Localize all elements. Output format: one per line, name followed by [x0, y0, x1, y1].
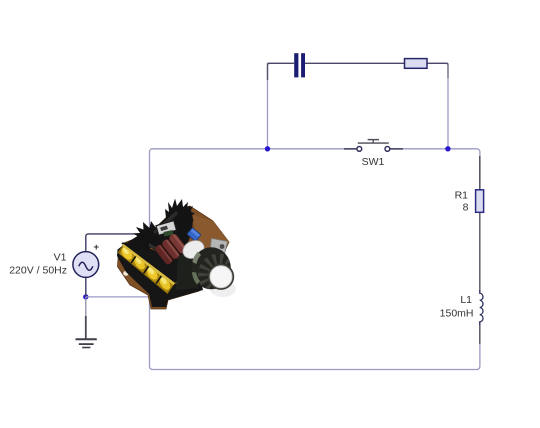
svg-text:SW1: SW1 [362, 156, 385, 168]
svg-text:R1: R1 [455, 190, 469, 202]
svg-text:+: + [94, 242, 100, 253]
svg-text:L1: L1 [460, 294, 472, 306]
svg-text:V1: V1 [54, 252, 67, 264]
svg-text:150mH: 150mH [440, 308, 474, 320]
svg-text:220V / 50Hz: 220V / 50Hz [9, 265, 67, 277]
svg-text:8: 8 [463, 202, 469, 214]
